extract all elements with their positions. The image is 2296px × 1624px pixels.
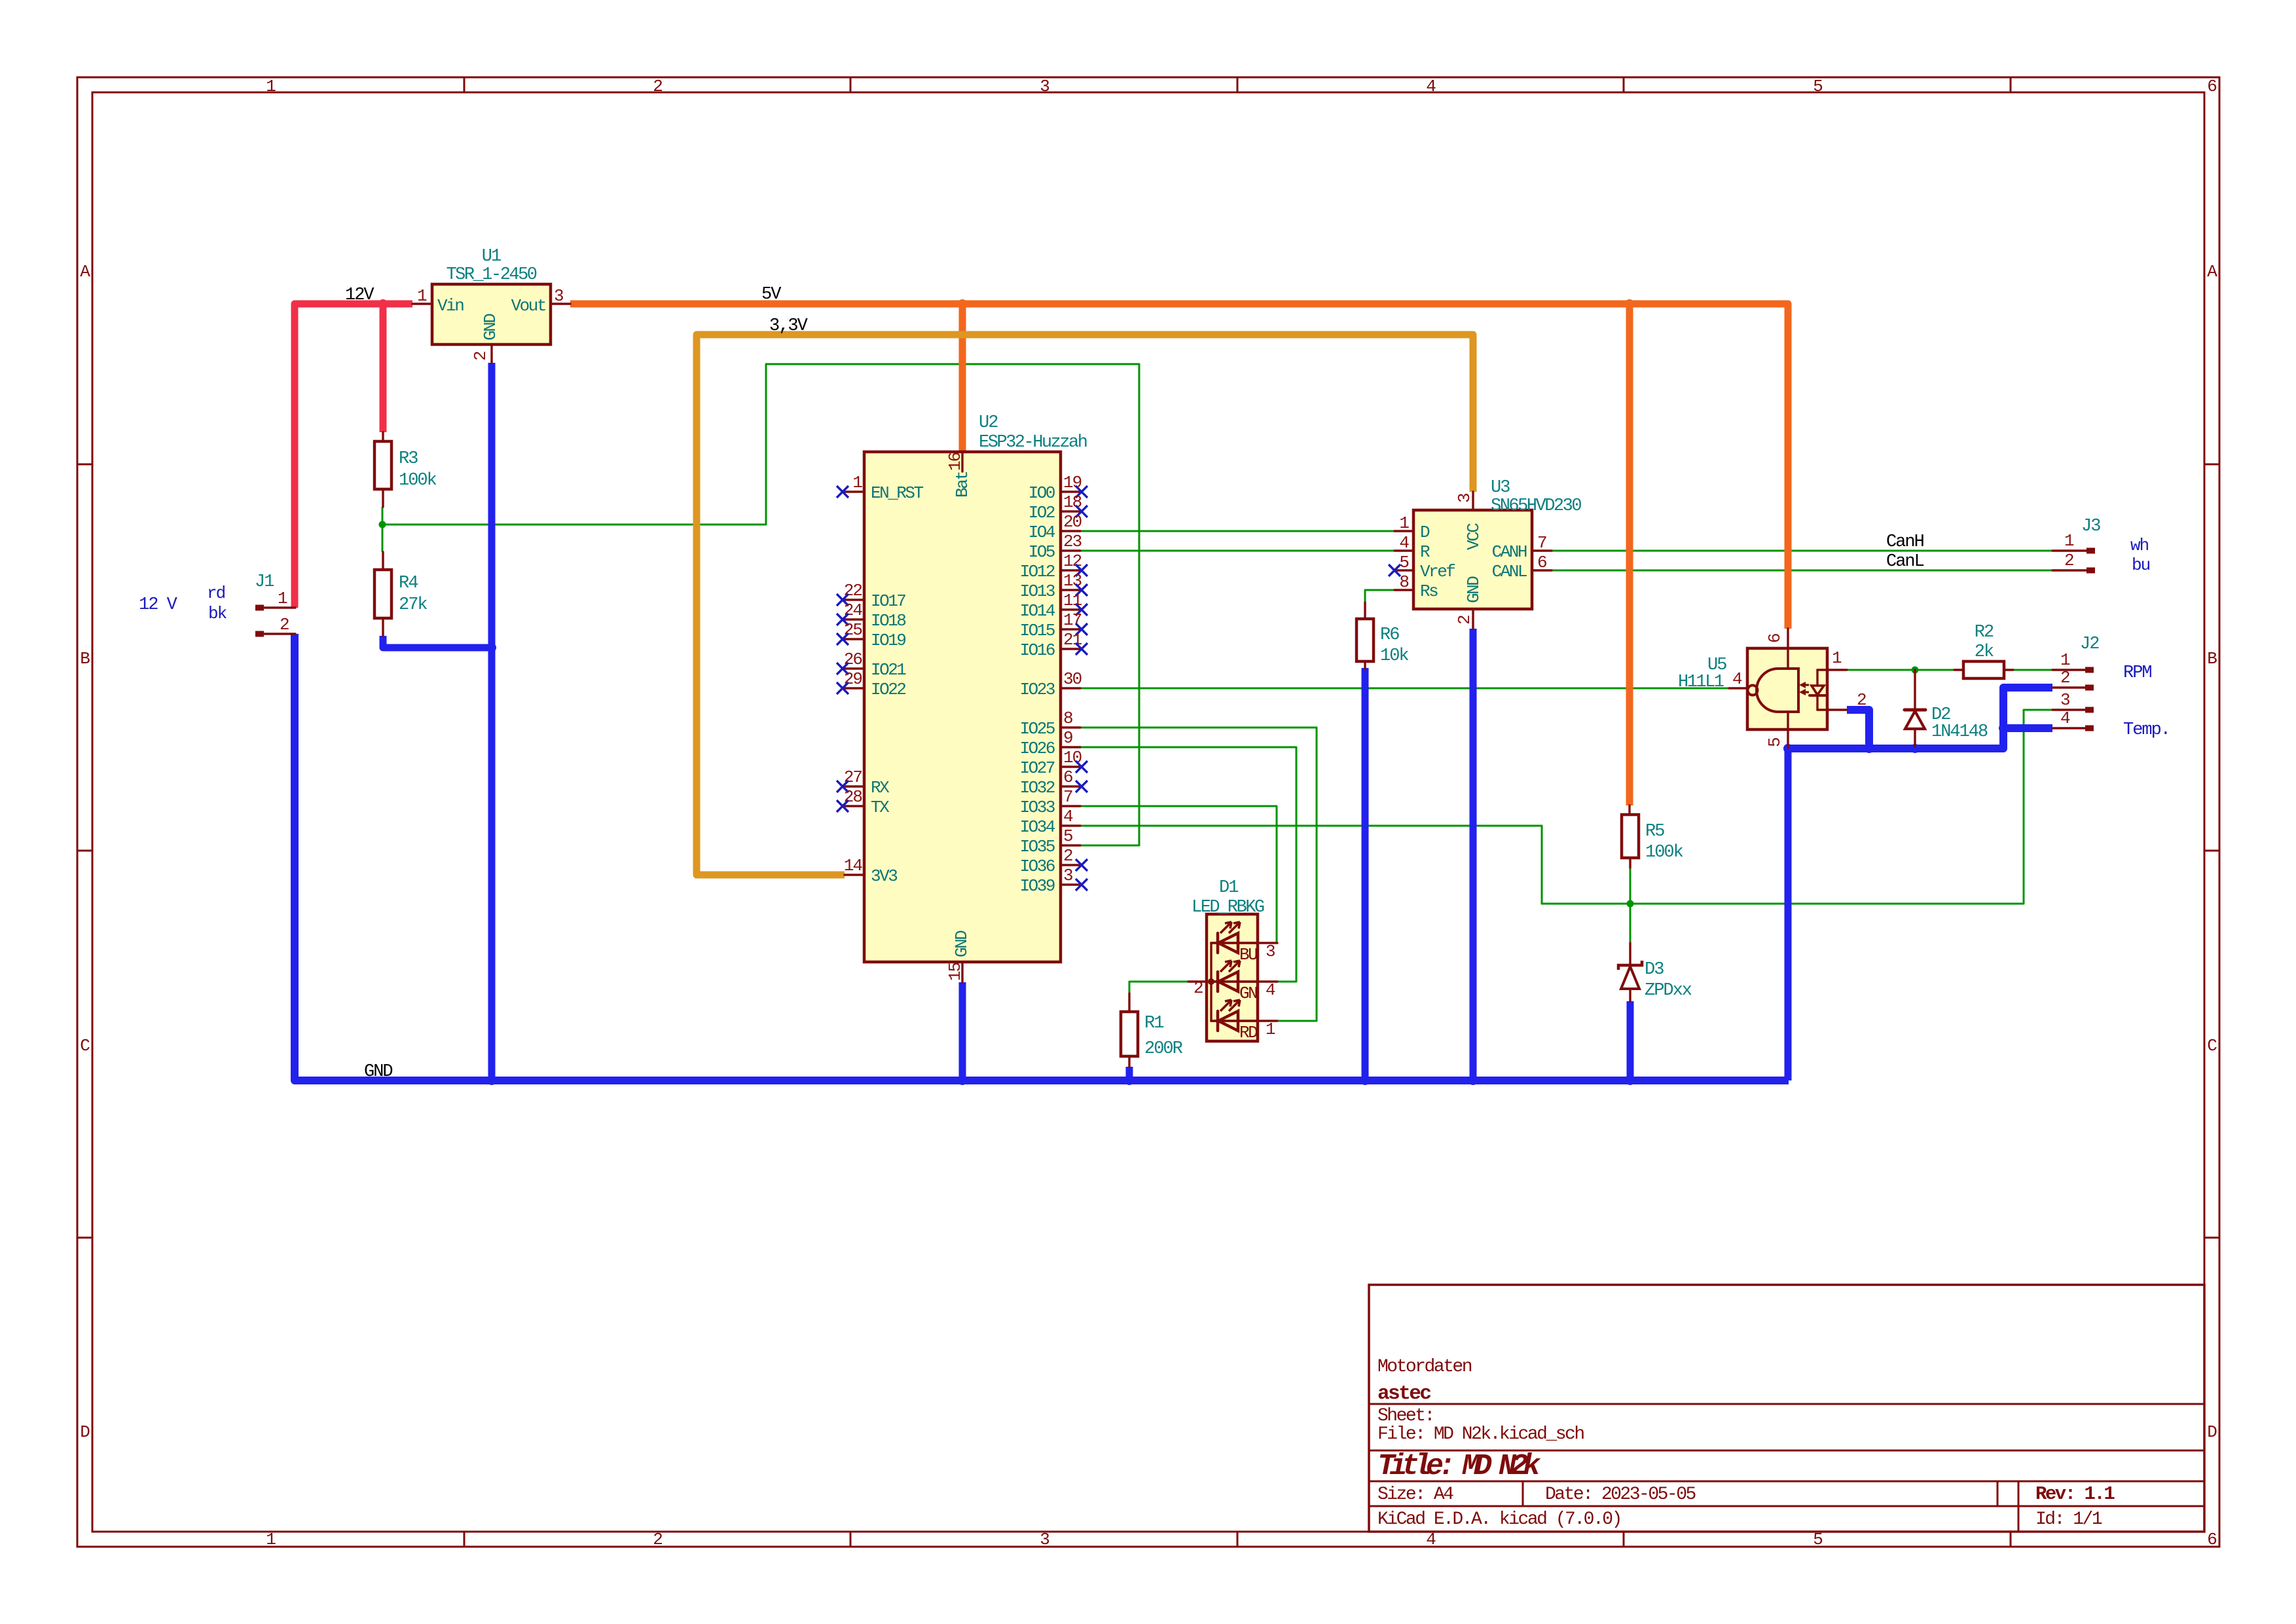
svg-text:1: 1	[2064, 531, 2074, 551]
svg-text:TSR_1-2450: TSR_1-2450	[446, 265, 536, 285]
svg-text:2: 2	[1063, 846, 1072, 866]
svg-text:bk: bk	[208, 604, 227, 623]
svg-text:D: D	[80, 1422, 90, 1442]
svg-text:bu: bu	[2132, 555, 2150, 575]
svg-text:1: 1	[1832, 648, 1842, 668]
svg-text:Id: 1/1: Id: 1/1	[2035, 1509, 2102, 1530]
svg-text:6: 6	[2207, 77, 2216, 96]
svg-text:R4: R4	[399, 574, 418, 593]
svg-text:3,3V: 3,3V	[769, 316, 809, 336]
svg-text:2: 2	[2064, 551, 2073, 570]
svg-text:4: 4	[1399, 533, 1409, 553]
svg-text:D3: D3	[1645, 960, 1664, 980]
svg-text:TX: TX	[871, 798, 890, 817]
svg-text:100k: 100k	[399, 471, 437, 490]
svg-text:5: 5	[1063, 826, 1072, 846]
svg-text:3: 3	[2060, 690, 2069, 710]
svg-text:IO35: IO35	[1020, 837, 1055, 857]
svg-text:7: 7	[1537, 533, 1546, 553]
svg-text:27: 27	[844, 767, 862, 787]
svg-text:3: 3	[1455, 494, 1474, 503]
svg-text:4: 4	[2060, 709, 2070, 728]
svg-text:12V: 12V	[345, 286, 374, 305]
svg-text:SN65HVD230: SN65HVD230	[1491, 496, 1581, 516]
svg-text:IO14: IO14	[1020, 601, 1055, 621]
svg-text:23: 23	[1063, 532, 1082, 551]
svg-text:16: 16	[945, 452, 965, 471]
svg-text:Vout: Vout	[511, 296, 545, 316]
svg-text:IO36: IO36	[1020, 857, 1055, 876]
svg-text:100k: 100k	[1645, 843, 1683, 862]
svg-text:CanH: CanH	[1886, 532, 1924, 552]
svg-text:10k: 10k	[1380, 646, 1408, 666]
svg-text:1: 1	[1266, 1020, 1275, 1039]
svg-text:R3: R3	[399, 449, 418, 469]
svg-text:File: MD N2k.kicad_sch: File: MD N2k.kicad_sch	[1377, 1424, 1584, 1445]
svg-text:B: B	[2207, 649, 2217, 669]
svg-text:IO22: IO22	[871, 680, 905, 699]
svg-text:IO2: IO2	[1029, 503, 1055, 523]
svg-text:CanL: CanL	[1886, 552, 1924, 572]
svg-text:29: 29	[844, 669, 862, 689]
svg-text:22: 22	[844, 581, 862, 600]
svg-text:1: 1	[266, 77, 276, 96]
svg-text:IO21: IO21	[871, 660, 906, 680]
svg-text:Size: A4: Size: A4	[1377, 1485, 1453, 1505]
svg-text:IO12: IO12	[1020, 562, 1055, 581]
svg-text:CANL: CANL	[1492, 562, 1527, 581]
svg-text:IO27: IO27	[1020, 758, 1055, 778]
svg-text:U2: U2	[979, 413, 998, 433]
svg-text:R2: R2	[1975, 623, 1994, 642]
svg-text:6: 6	[2207, 1530, 2216, 1549]
svg-text:J3: J3	[2081, 517, 2100, 536]
svg-text:1: 1	[1399, 513, 1409, 533]
svg-text:ESP32-Huzzah: ESP32-Huzzah	[979, 433, 1087, 452]
svg-text:3V3: 3V3	[871, 866, 897, 886]
svg-text:IO5: IO5	[1029, 542, 1055, 562]
svg-text:KiCad E.D.A. kicad (7.0.0): KiCad E.D.A. kicad (7.0.0)	[1377, 1509, 1621, 1530]
svg-text:25: 25	[844, 620, 862, 640]
svg-text:4: 4	[1063, 807, 1073, 826]
svg-text:IO16: IO16	[1020, 640, 1055, 660]
svg-text:U3: U3	[1491, 478, 1510, 498]
svg-text:EN_RST: EN_RST	[871, 483, 924, 503]
svg-text:IO23: IO23	[1020, 680, 1055, 699]
svg-text:J2: J2	[2080, 635, 2099, 654]
svg-text:Vin: Vin	[437, 296, 464, 316]
svg-text:RD: RD	[1239, 1023, 1258, 1043]
svg-text:14: 14	[844, 856, 863, 876]
svg-text:Rev: 1.1: Rev: 1.1	[2035, 1483, 2115, 1505]
svg-text:6: 6	[1765, 634, 1785, 643]
svg-text:27k: 27k	[399, 595, 427, 615]
svg-text:Bat: Bat	[953, 472, 972, 498]
svg-text:Vref: Vref	[1420, 562, 1455, 581]
svg-text:A: A	[2207, 262, 2217, 282]
svg-text:5: 5	[1813, 77, 1822, 96]
svg-text:GND: GND	[364, 1062, 392, 1082]
svg-text:2: 2	[653, 1530, 662, 1549]
svg-text:12 V: 12 V	[139, 595, 178, 615]
svg-text:1: 1	[2060, 650, 2070, 670]
svg-text:30: 30	[1063, 669, 1082, 689]
svg-text:1: 1	[417, 286, 427, 306]
svg-text:J1: J1	[255, 572, 274, 592]
svg-text:RX: RX	[871, 778, 890, 798]
svg-text:Title: MD N2k: Title: MD N2k	[1377, 1450, 1541, 1483]
svg-text:1: 1	[278, 589, 287, 608]
svg-text:2k: 2k	[1975, 642, 1994, 662]
svg-text:GND: GND	[481, 314, 500, 341]
svg-text:1N4148: 1N4148	[1931, 722, 1988, 742]
svg-text:26: 26	[844, 650, 862, 669]
svg-text:2: 2	[1194, 978, 1203, 998]
svg-text:ZPDxx: ZPDxx	[1645, 981, 1692, 1001]
svg-text:15: 15	[945, 963, 965, 981]
svg-text:LED_RBKG: LED_RBKG	[1192, 898, 1264, 917]
svg-text:Rs: Rs	[1420, 581, 1438, 601]
svg-text:2: 2	[1857, 690, 1866, 710]
svg-text:IO34: IO34	[1020, 817, 1055, 837]
svg-text:GND: GND	[952, 931, 972, 957]
svg-text:3: 3	[1040, 1530, 1049, 1549]
svg-text:3: 3	[554, 286, 563, 306]
svg-text:D1: D1	[1219, 878, 1238, 898]
svg-text:U1: U1	[482, 247, 501, 267]
svg-text:CANH: CANH	[1492, 542, 1527, 562]
svg-text:R6: R6	[1380, 625, 1399, 645]
svg-text:GN: GN	[1239, 984, 1257, 1003]
svg-text:IO26: IO26	[1020, 739, 1055, 758]
svg-text:1: 1	[266, 1530, 276, 1549]
svg-text:R: R	[1420, 542, 1430, 562]
svg-text:IO17: IO17	[871, 591, 905, 611]
svg-text:5V: 5V	[761, 285, 782, 304]
svg-text:R1: R1	[1144, 1014, 1163, 1033]
svg-text:Date: 2023-05-05: Date: 2023-05-05	[1545, 1485, 1696, 1505]
svg-text:200R: 200R	[1144, 1039, 1183, 1059]
svg-text:IO4: IO4	[1029, 523, 1055, 542]
svg-text:4: 4	[1732, 669, 1742, 689]
svg-text:6: 6	[1537, 553, 1546, 572]
svg-text:C: C	[80, 1036, 90, 1056]
svg-text:D: D	[1420, 523, 1430, 542]
svg-text:IO15: IO15	[1020, 621, 1055, 640]
svg-text:A: A	[80, 262, 90, 282]
svg-text:wh: wh	[2130, 536, 2149, 555]
svg-text:rd: rd	[207, 583, 225, 603]
svg-text:IO19: IO19	[871, 631, 905, 650]
svg-text:4: 4	[1266, 980, 1275, 1000]
svg-text:Temp.: Temp.	[2123, 720, 2170, 740]
svg-text:2: 2	[280, 615, 289, 635]
svg-text:2: 2	[653, 77, 662, 96]
svg-text:D: D	[2207, 1422, 2217, 1442]
svg-text:3: 3	[1266, 942, 1275, 961]
svg-text:20: 20	[1063, 512, 1082, 532]
svg-text:3: 3	[1063, 866, 1072, 885]
svg-text:Motordaten: Motordaten	[1377, 1357, 1472, 1377]
svg-text:3: 3	[1040, 77, 1049, 96]
svg-text:24: 24	[844, 600, 863, 620]
svg-text:2: 2	[2060, 668, 2069, 688]
svg-text:H11L1: H11L1	[1678, 673, 1724, 692]
svg-text:2: 2	[1455, 616, 1474, 625]
svg-text:RPM: RPM	[2123, 663, 2151, 683]
svg-text:VCC: VCC	[1464, 523, 1484, 550]
svg-text:R5: R5	[1645, 822, 1664, 841]
svg-text:C: C	[2207, 1036, 2217, 1056]
svg-text:9: 9	[1063, 728, 1072, 748]
svg-text:IO18: IO18	[871, 611, 905, 631]
svg-text:1: 1	[852, 473, 862, 492]
svg-text:2: 2	[471, 352, 490, 361]
svg-text:4: 4	[1426, 77, 1436, 96]
svg-text:IO32: IO32	[1020, 778, 1055, 798]
svg-text:IO39: IO39	[1020, 876, 1055, 896]
svg-text:8: 8	[1063, 709, 1072, 728]
svg-text:astec: astec	[1377, 1382, 1430, 1405]
svg-text:28: 28	[844, 787, 862, 807]
svg-text:IO13: IO13	[1020, 581, 1055, 601]
svg-text:6: 6	[1063, 767, 1072, 787]
svg-text:5: 5	[1765, 738, 1785, 747]
svg-text:GND: GND	[1464, 576, 1484, 603]
svg-text:IO33: IO33	[1020, 798, 1055, 817]
svg-text:B: B	[80, 649, 90, 669]
svg-text:BU: BU	[1239, 945, 1257, 965]
svg-text:IO0: IO0	[1029, 483, 1055, 503]
svg-text:Sheet:: Sheet:	[1377, 1406, 1434, 1426]
svg-text:IO25: IO25	[1020, 719, 1055, 739]
svg-text:7: 7	[1063, 787, 1072, 807]
svg-text:5: 5	[1399, 553, 1408, 572]
